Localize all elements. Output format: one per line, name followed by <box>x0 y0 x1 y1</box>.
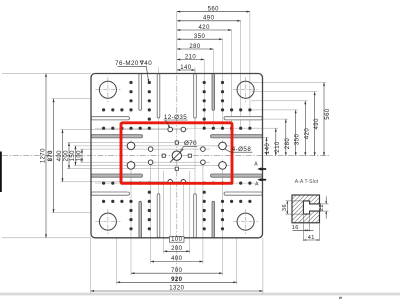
svg-text:100: 100 <box>76 150 82 162</box>
svg-text:150: 150 <box>70 150 76 162</box>
svg-text:560: 560 <box>325 108 331 120</box>
svg-text:420: 420 <box>304 128 310 140</box>
svg-text:210: 210 <box>185 54 197 60</box>
svg-text:200: 200 <box>171 246 183 252</box>
svg-text:280: 280 <box>189 44 201 50</box>
svg-text:140: 140 <box>265 143 271 155</box>
svg-text:A: A <box>254 162 258 168</box>
svg-text:A-A T-Slot: A-A T-Slot <box>295 179 319 185</box>
svg-text:22: 22 <box>319 204 325 211</box>
svg-text:210: 210 <box>275 141 281 153</box>
svg-text:16: 16 <box>292 225 299 231</box>
svg-text:41: 41 <box>308 235 315 241</box>
svg-text:350: 350 <box>194 34 206 40</box>
svg-text:200: 200 <box>63 150 69 162</box>
svg-text:400: 400 <box>57 150 63 162</box>
svg-text:700: 700 <box>171 268 183 274</box>
svg-text:400: 400 <box>171 256 183 262</box>
svg-text:490: 490 <box>314 118 320 130</box>
svg-text:280: 280 <box>285 138 291 150</box>
svg-text:1270: 1270 <box>40 148 46 163</box>
svg-text:560: 560 <box>208 7 220 13</box>
svg-text:36: 36 <box>282 204 288 211</box>
svg-text:140: 140 <box>180 65 192 71</box>
svg-text:1320: 1320 <box>169 286 184 292</box>
svg-text:920: 920 <box>171 277 183 283</box>
svg-text:420: 420 <box>199 25 211 31</box>
svg-text:870: 870 <box>48 150 54 162</box>
svg-text:A: A <box>255 182 259 188</box>
svg-text:350: 350 <box>295 134 301 146</box>
svg-text:100: 100 <box>171 237 183 243</box>
svg-text:490: 490 <box>203 16 215 22</box>
